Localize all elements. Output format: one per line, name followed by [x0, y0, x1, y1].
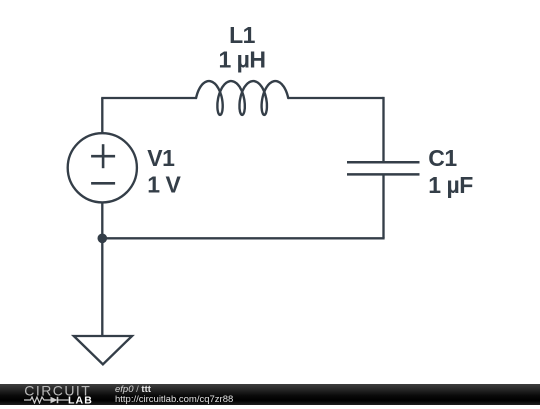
inductor L1 coil [196, 81, 288, 115]
footer bar [0, 384, 540, 405]
svg-text:1 µH: 1 µH [218, 47, 265, 73]
node junction dot [98, 234, 108, 244]
wire L1 to top-right corner [288, 97, 383, 99]
svg-text:L1: L1 [229, 22, 256, 48]
ground symbol [74, 336, 132, 364]
wire V1 bottom to node [101, 202, 103, 238]
svg-text:1 µF: 1 µF [428, 172, 473, 198]
voltage source V1 [68, 133, 137, 202]
wire bottom-right corner to node [102, 237, 384, 239]
footer circuit name [115, 385, 233, 405]
wire C1 bottom plate to bottom-right corner [382, 174, 384, 238]
capacitor C1 [347, 162, 420, 174]
wire top-right corner down to C1 top plate [382, 97, 384, 162]
wire top-left corner to L1 [101, 97, 196, 99]
wire node to ground [101, 238, 103, 336]
svg-text:1 V: 1 V [147, 171, 181, 197]
svg-text:LAB: LAB [68, 395, 93, 404]
svg-text:C1: C1 [428, 145, 457, 171]
wire V1 top to top-left corner [101, 98, 103, 133]
svg-text:V1: V1 [147, 145, 175, 171]
CircuitLab logo [24, 385, 99, 409]
